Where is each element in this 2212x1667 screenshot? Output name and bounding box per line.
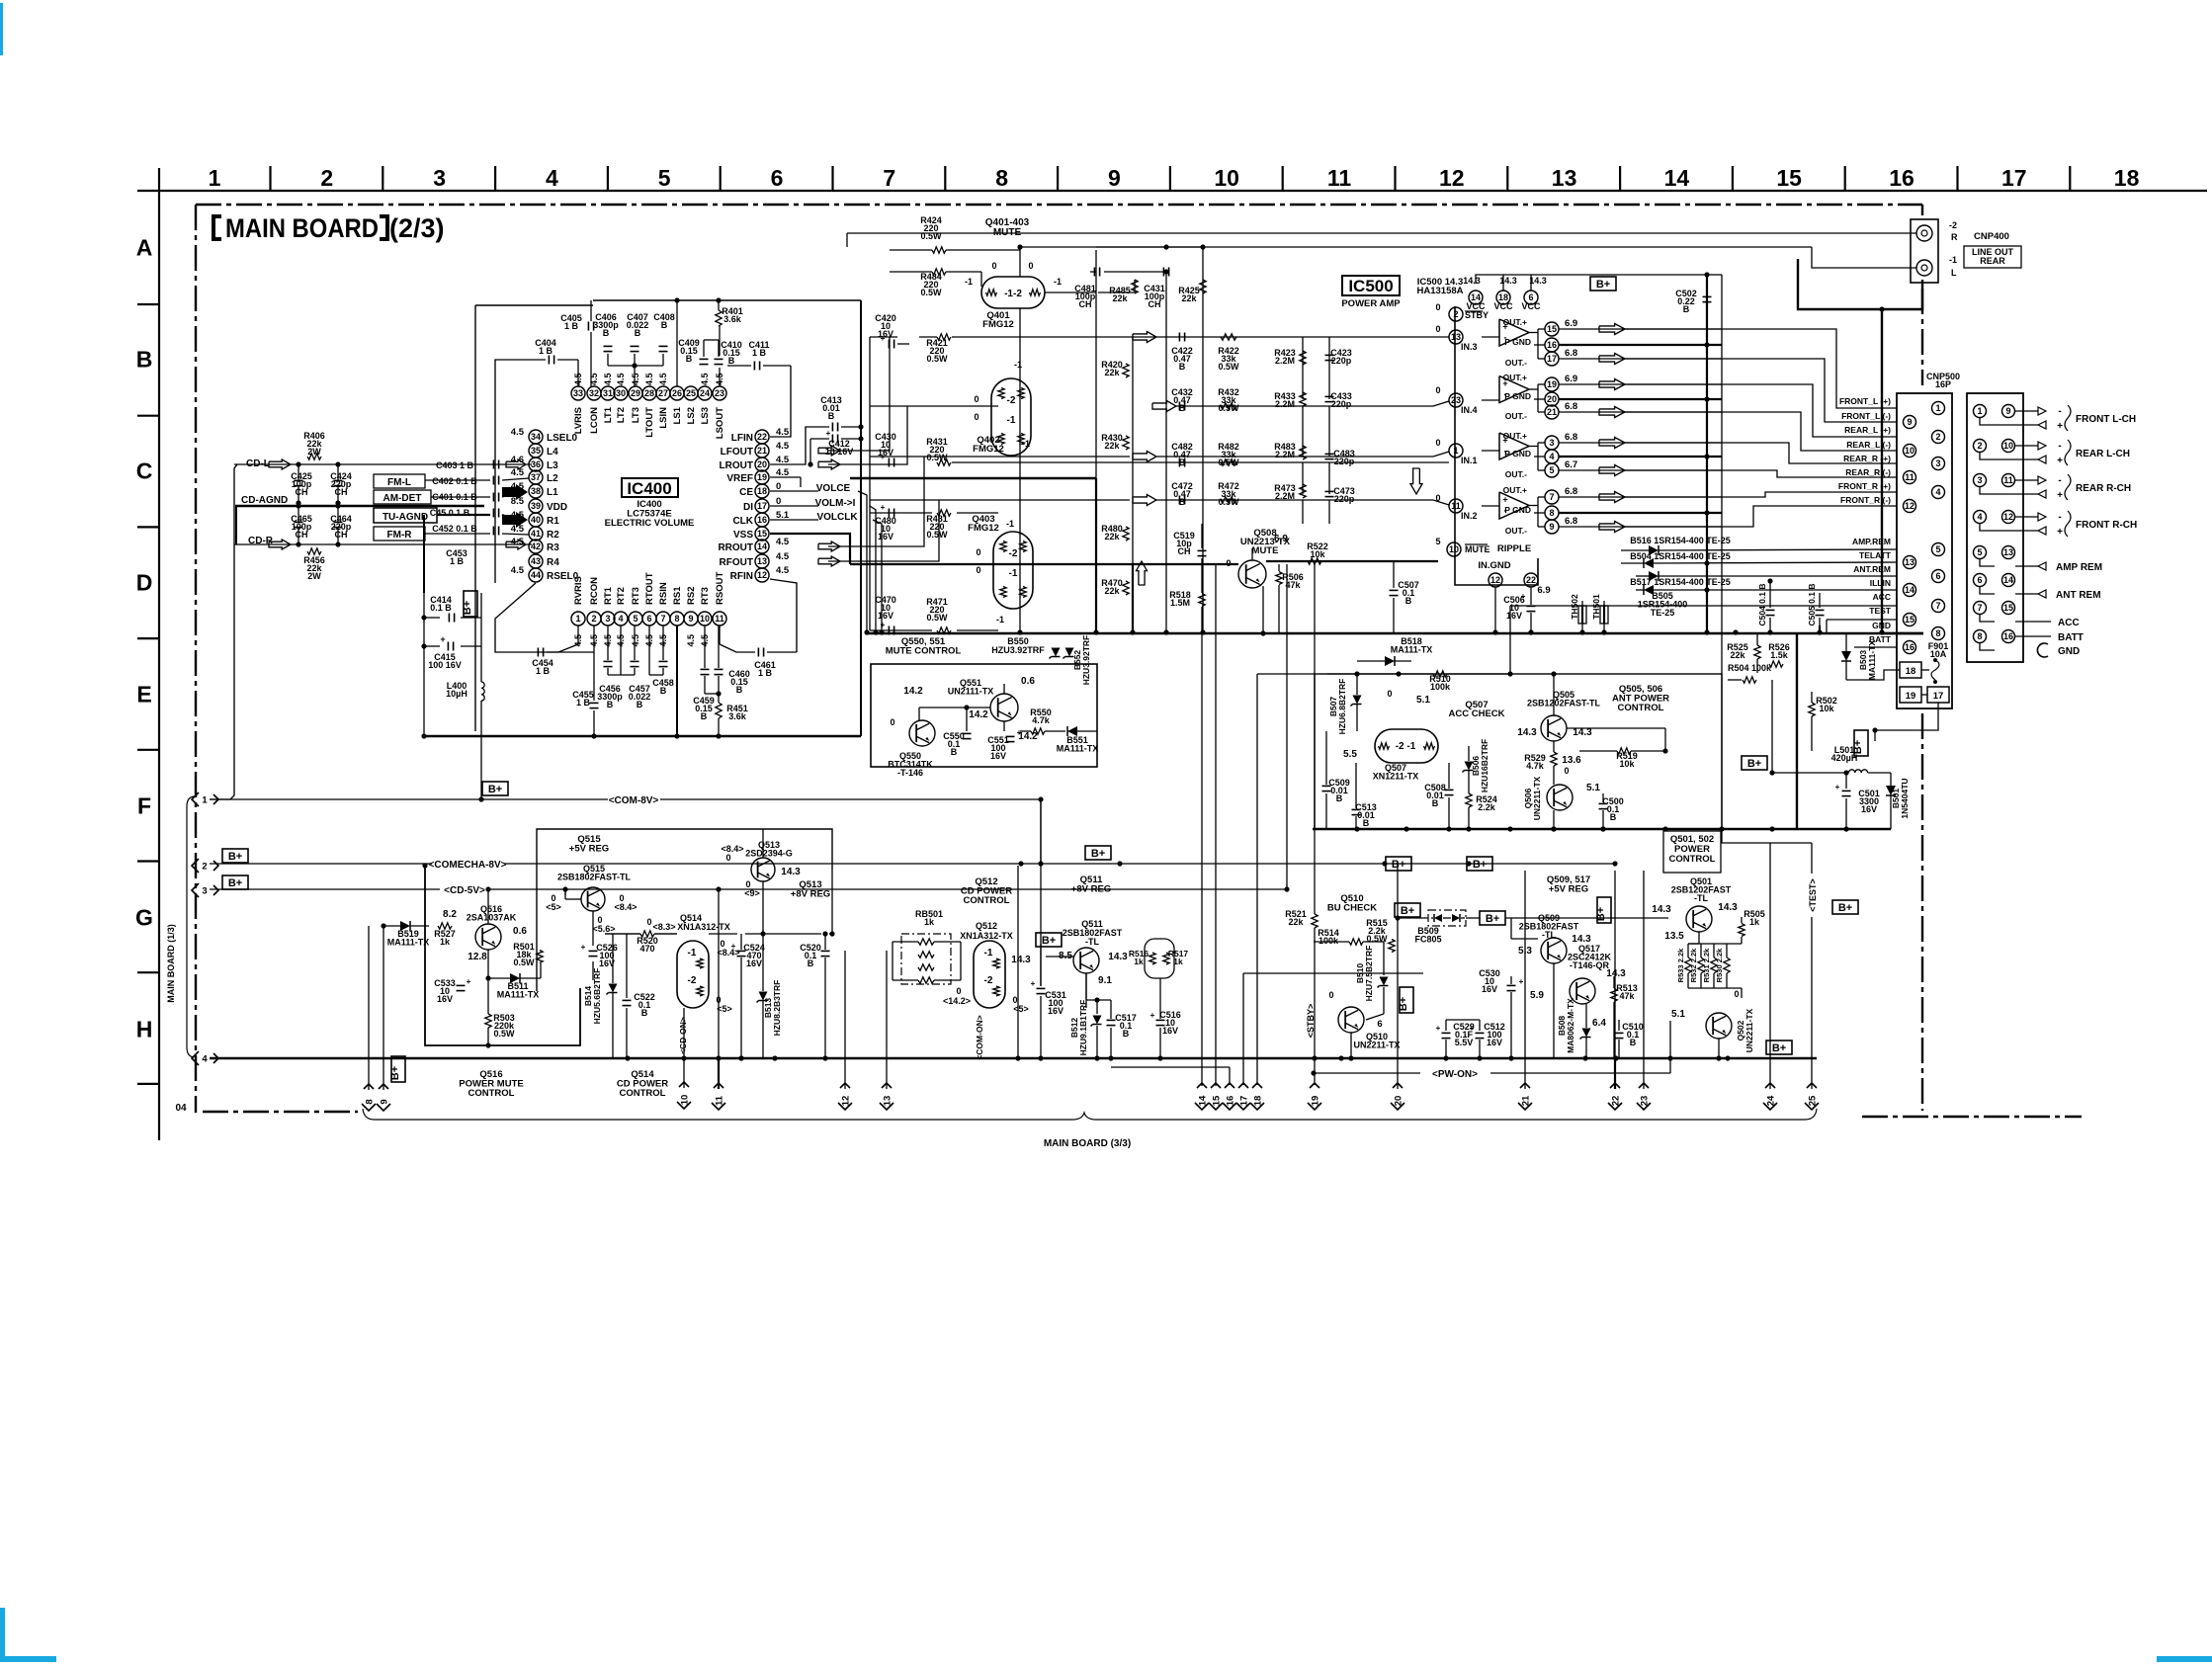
- wire FM-L to L2: [425, 479, 490, 481]
- svg-text:IN.GND: IN.GND: [1478, 560, 1510, 571]
- svg-text:B+: B+: [1091, 848, 1105, 860]
- svg-text:13: 13: [1451, 332, 1461, 342]
- svg-text:23: 23: [1451, 395, 1461, 405]
- svg-text:4: 4: [202, 1053, 208, 1064]
- svg-text:15: 15: [757, 529, 767, 539]
- svg-text:TU-AGND: TU-AGND: [383, 512, 428, 523]
- IC500 pin 10 MUTE: [1447, 542, 1461, 556]
- svg-text:AM-DET: AM-DET: [383, 493, 422, 504]
- wire Q514 row: [605, 933, 640, 935]
- speaker channel FRONT R-CH: [2015, 516, 2038, 518]
- svg-text:B: B: [808, 959, 814, 968]
- svg-text:+: +: [1017, 728, 1022, 737]
- board frame bottom border: [203, 1112, 2082, 1117]
- svg-text:100 16V: 100 16V: [428, 660, 462, 670]
- svg-text:CH: CH: [1149, 299, 1161, 309]
- svg-text:3.6k: 3.6k: [728, 711, 747, 721]
- svg-text:+5V REG: +5V REG: [569, 844, 609, 855]
- svg-text:25: 25: [1807, 1095, 1818, 1106]
- svg-text:REAR: REAR: [1980, 256, 2005, 266]
- svg-text:REAR R-CH: REAR R-CH: [2076, 483, 2131, 494]
- svg-text:22: 22: [1526, 575, 1536, 585]
- page connector 20: [1391, 1083, 1404, 1110]
- svg-text:MA111-TX: MA111-TX: [1867, 640, 1877, 680]
- svg-text:B+: B+: [1595, 907, 1607, 921]
- svg-text:12: 12: [1905, 501, 1914, 511]
- wire column x1302: [1286, 564, 1288, 889]
- sub-circuit box ACC CHECK: [1315, 674, 1722, 829]
- svg-text:B+: B+: [228, 877, 242, 889]
- svg-text:B: B: [728, 356, 735, 366]
- svg-text:14.3: 14.3: [1108, 952, 1128, 962]
- svg-text:B: B: [736, 685, 743, 695]
- svg-text:LT3: LT3: [631, 407, 641, 423]
- speaker connector pins: [1974, 405, 1987, 418]
- B+ box IC500: [1590, 277, 1616, 291]
- svg-text:+5V REG: +5V REG: [1549, 884, 1588, 895]
- svg-text:+: +: [440, 634, 445, 644]
- wire Q511 nets: [1085, 973, 1087, 1008]
- wire column 15: [1215, 564, 1217, 1086]
- page connector 12: [838, 1083, 852, 1110]
- wire C413 C412 loop: [770, 427, 829, 464]
- svg-text:VCC: VCC: [1493, 301, 1513, 311]
- svg-text:0: 0: [1328, 990, 1333, 1000]
- svg-text:0: 0: [1028, 261, 1033, 271]
- svg-text:B+: B+: [1747, 758, 1761, 770]
- svg-text:L: L: [1951, 268, 1957, 278]
- svg-text:ACC: ACC: [2058, 618, 2080, 628]
- svg-text:-1: -1: [1006, 519, 1014, 529]
- svg-text:10: 10: [1905, 446, 1914, 456]
- wire column 14: [1201, 607, 1203, 1086]
- svg-text:B: B: [828, 411, 835, 421]
- svg-text:CLK: CLK: [732, 516, 753, 527]
- svg-text:L2: L2: [547, 473, 558, 484]
- open arrow in2: [1133, 495, 1156, 506]
- svg-text:+: +: [2057, 456, 2063, 466]
- svg-text:8: 8: [995, 165, 1008, 191]
- svg-text:+: +: [1150, 1011, 1155, 1020]
- wire GND trunk vertical: [1881, 309, 1883, 632]
- node FM-R: [374, 527, 425, 541]
- svg-text:0: 0: [1564, 766, 1569, 776]
- svg-text:22k: 22k: [1104, 586, 1120, 596]
- svg-text:1 B: 1 B: [450, 556, 465, 566]
- svg-text:1 B: 1 B: [564, 321, 579, 331]
- svg-text:<CD-5V>: <CD-5V>: [444, 885, 485, 896]
- svg-text:DI: DI: [743, 502, 753, 513]
- wire B+ top bus: [1706, 275, 1708, 632]
- svg-text:LS1: LS1: [672, 406, 683, 424]
- IC500 pin 14 VCC: [1469, 291, 1483, 304]
- svg-text:16V: 16V: [1506, 611, 1522, 621]
- resistor R456: [307, 548, 321, 554]
- svg-text:VSS: VSS: [733, 530, 753, 541]
- svg-text:XN1A312-TX: XN1A312-TX: [677, 922, 730, 932]
- svg-text:22k: 22k: [1181, 293, 1197, 303]
- board frame top border: [196, 204, 1922, 206]
- svg-text:<8.4>: <8.4>: [614, 902, 637, 912]
- svg-text:5.1: 5.1: [1416, 695, 1430, 706]
- svg-text:16V: 16V: [1861, 804, 1877, 814]
- svg-text:2: 2: [1453, 309, 1458, 319]
- svg-text:8.5: 8.5: [511, 496, 525, 507]
- open arrow in4: [1152, 401, 1176, 412]
- svg-text:4.5: 4.5: [511, 427, 525, 438]
- svg-text:B+: B+: [1838, 902, 1852, 914]
- wire mute thick row: [850, 563, 1238, 565]
- svg-text:UN2111-TX: UN2111-TX: [948, 687, 994, 697]
- svg-text:-: -: [2058, 475, 2061, 486]
- svg-text:10µH: 10µH: [446, 689, 468, 699]
- svg-text:AMP.REM: AMP.REM: [1852, 537, 1891, 546]
- svg-text:6.8: 6.8: [1565, 348, 1577, 359]
- wire x1740 line: [1721, 275, 1723, 539]
- svg-text:4.7k: 4.7k: [1526, 761, 1545, 771]
- svg-text:+: +: [581, 943, 586, 952]
- brace MAIN BOARD 1/3: [187, 796, 194, 1057]
- svg-text:9: 9: [1549, 522, 1554, 532]
- svg-text:21: 21: [757, 446, 767, 456]
- wire in2 row: [870, 499, 1130, 501]
- svg-text:-: -: [2058, 512, 2061, 523]
- svg-text:P GND: P GND: [1504, 449, 1531, 458]
- wire CD-AGND drop: [235, 506, 237, 544]
- svg-text:16P: 16P: [1935, 379, 1951, 389]
- svg-text:FRONT_L (-): FRONT_L (-): [1841, 411, 1891, 421]
- svg-text:REAR L-CH: REAR L-CH: [2076, 449, 2130, 459]
- svg-text:MUTE: MUTE: [1252, 545, 1279, 556]
- svg-text:14.2: 14.2: [969, 709, 988, 720]
- fuse box 19: [1900, 687, 1921, 703]
- op-amp IC500 channel 2: [1499, 376, 1529, 403]
- svg-text:10k: 10k: [1619, 759, 1635, 769]
- wire VREF stub: [770, 476, 801, 478]
- svg-text:0: 0: [976, 565, 980, 575]
- svg-text:6: 6: [771, 165, 784, 191]
- svg-text:G: G: [135, 905, 153, 931]
- svg-text:17: 17: [1547, 354, 1557, 364]
- svg-text:16V: 16V: [1487, 1038, 1502, 1047]
- wire CD-5V line: [210, 888, 440, 890]
- wire vertical node 1 riser: [210, 464, 237, 799]
- svg-text:470: 470: [639, 944, 654, 954]
- svg-text:C45 0.1 B: C45 0.1 B: [430, 508, 470, 518]
- wire in4 row: [870, 405, 998, 407]
- transistor Q513: [751, 858, 775, 881]
- svg-text:8: 8: [364, 1099, 375, 1104]
- wire CD-L: [259, 463, 532, 465]
- svg-text:6.9: 6.9: [1565, 374, 1577, 384]
- svg-text:4: 4: [618, 614, 623, 624]
- svg-text:11: 11: [2003, 475, 2013, 485]
- svg-text:HZU9.1B1TRF: HZU9.1B1TRF: [1078, 1000, 1088, 1056]
- svg-text:9: 9: [2005, 406, 2010, 416]
- svg-text:FRONT_R (+): FRONT_R (+): [1838, 481, 1891, 491]
- svg-text:1: 1: [1935, 403, 1940, 413]
- svg-text:IC400: IC400: [627, 479, 671, 498]
- svg-text:FC805: FC805: [1414, 935, 1441, 945]
- svg-text:-2: -2: [1007, 395, 1016, 406]
- svg-text:12: 12: [1490, 575, 1500, 585]
- svg-text:REAR_R (+): REAR_R (+): [1843, 454, 1891, 463]
- registration mark bottom-right: [2157, 1656, 2212, 1662]
- svg-text:17: 17: [757, 501, 767, 511]
- svg-text:14.3: 14.3: [1606, 968, 1626, 979]
- wire Q515 base stub: [564, 889, 566, 899]
- svg-text:R4: R4: [547, 557, 559, 568]
- svg-text:H: H: [136, 1017, 153, 1042]
- svg-text:6.9: 6.9: [1565, 318, 1577, 329]
- IC500 pin 11 IN.2: [1449, 499, 1463, 513]
- svg-text:VDD: VDD: [547, 502, 567, 513]
- svg-text:FM-R: FM-R: [387, 530, 413, 541]
- svg-text:F: F: [137, 793, 151, 819]
- open arrow row C inputs: [506, 459, 526, 469]
- svg-text:<CD-ON>: <CD-ON>: [678, 1017, 688, 1054]
- svg-text:1: 1: [202, 794, 208, 805]
- svg-text:B: B: [660, 686, 667, 696]
- svg-text:0: 0: [1435, 324, 1440, 334]
- svg-text:MA111-TX: MA111-TX: [387, 938, 430, 948]
- svg-text:<PW-ON>: <PW-ON>: [1432, 1069, 1478, 1080]
- svg-text:0: 0: [974, 412, 978, 422]
- svg-text:14.3: 14.3: [1529, 276, 1547, 286]
- wire jack R feed: [847, 232, 1916, 234]
- svg-text:OUT.-: OUT.-: [1505, 358, 1527, 368]
- svg-text:0: 0: [646, 917, 651, 927]
- svg-text:OUT.+: OUT.+: [1503, 373, 1527, 382]
- svg-text:+: +: [1835, 783, 1840, 792]
- wire VCC tops: [1476, 275, 1707, 284]
- wire RFOUT arrow: [818, 556, 840, 566]
- page connector 16: [1223, 1083, 1236, 1110]
- svg-text:<8.4>: <8.4>: [717, 948, 739, 958]
- wire column 17: [1242, 973, 1244, 1085]
- hatched arrow CD-L: [269, 459, 291, 469]
- svg-text:3: 3: [202, 885, 207, 896]
- board frame right border: [1921, 205, 1923, 1111]
- svg-text:RSEL0: RSEL0: [547, 571, 579, 582]
- svg-text:20: 20: [1393, 1096, 1404, 1107]
- wire audio feedback verticals: [828, 337, 890, 451]
- svg-text:R: R: [1951, 232, 1958, 242]
- fuse element: [1931, 660, 1939, 680]
- svg-text:14: 14: [757, 542, 767, 551]
- svg-text:2: 2: [202, 861, 207, 872]
- IC400 top bus: [593, 299, 861, 301]
- svg-text:POWER AMP: POWER AMP: [1341, 298, 1401, 309]
- svg-text:32: 32: [589, 388, 599, 398]
- page connector 3: [192, 883, 218, 897]
- svg-text:ANT REM: ANT REM: [2056, 590, 2101, 601]
- svg-text:B+: B+: [1398, 997, 1409, 1011]
- resistor bank R533 R532 R531 R530: [1685, 958, 1691, 973]
- up arrow near C519: [1137, 561, 1148, 585]
- wire main mid GND bus: [867, 632, 1923, 635]
- svg-text:CH: CH: [335, 530, 348, 540]
- transistor pair Q403: [993, 532, 1033, 609]
- svg-text:RT3: RT3: [631, 587, 641, 605]
- svg-text:R531 2.2k: R531 2.2k: [1702, 948, 1711, 982]
- svg-text:B: B: [136, 347, 153, 373]
- svg-text:-1: -1: [1007, 415, 1016, 426]
- svg-text:MA111-TX: MA111-TX: [1057, 744, 1099, 754]
- svg-text:4.5: 4.5: [511, 565, 525, 576]
- svg-text:4.6: 4.6: [511, 455, 524, 465]
- svg-text:16: 16: [1547, 340, 1557, 350]
- wire C507 column: [1393, 561, 1395, 588]
- wire jack thick return: [1798, 259, 1922, 309]
- svg-text:IN.3: IN.3: [1461, 342, 1478, 352]
- wire column 19 with R521: [1314, 561, 1316, 914]
- svg-text:RSOUT: RSOUT: [715, 572, 725, 605]
- wire C519 column: [1201, 524, 1203, 548]
- wire Q501 area nets: [1698, 932, 1700, 944]
- svg-text:14.3: 14.3: [1499, 276, 1517, 286]
- svg-text:B: B: [1405, 596, 1412, 606]
- svg-text:7: 7: [1935, 601, 1940, 611]
- svg-text:1 B: 1 B: [536, 666, 551, 676]
- svg-text:21: 21: [1520, 1095, 1531, 1106]
- IC500 outline: [1455, 306, 1538, 585]
- svg-text:-1: -1: [965, 277, 973, 287]
- svg-text:42: 42: [531, 542, 541, 551]
- svg-text:<COM-ON>: <COM-ON>: [975, 1015, 984, 1059]
- wire vertical trunk x1109: [1095, 250, 1097, 478]
- svg-text:(2/3): (2/3): [389, 213, 445, 243]
- speaker channel REAR L-CH: [2015, 445, 2038, 447]
- svg-text:CH: CH: [296, 530, 308, 540]
- svg-text:3: 3: [1935, 458, 1940, 468]
- wire C480 row: [870, 512, 932, 514]
- svg-text:9: 9: [1108, 165, 1121, 191]
- wire vertical trunk x1032: [1019, 326, 1021, 632]
- wire bottom main bus: [210, 1057, 1817, 1060]
- svg-text:B+: B+: [228, 851, 242, 863]
- svg-text:5: 5: [1435, 537, 1440, 546]
- B+ box left of L501: [1742, 756, 1767, 770]
- svg-text:+: +: [1470, 1024, 1475, 1033]
- svg-text:4.5: 4.5: [776, 441, 790, 452]
- svg-text:4.5: 4.5: [511, 537, 525, 547]
- svg-text:B: B: [1363, 818, 1370, 828]
- svg-text:0: 0: [991, 261, 996, 271]
- svg-text:10: 10: [679, 1095, 690, 1106]
- svg-text:0.5W: 0.5W: [493, 1029, 515, 1039]
- svg-text:B+: B+: [1042, 935, 1056, 947]
- svg-text:+: +: [881, 503, 886, 512]
- svg-text:TE-25: TE-25: [1651, 608, 1675, 618]
- board frame left border: [195, 205, 197, 1113]
- svg-text:LFOUT: LFOUT: [721, 447, 753, 458]
- svg-text:LCON: LCON: [589, 407, 600, 434]
- wire Q508 collector: [1262, 586, 1264, 633]
- svg-text:1: 1: [209, 165, 221, 191]
- svg-text:6.8: 6.8: [1565, 486, 1577, 497]
- svg-text:B+: B+: [1401, 905, 1414, 917]
- svg-text:FMG12: FMG12: [973, 444, 1004, 455]
- svg-text:B+: B+: [462, 601, 473, 615]
- wire vertical trunk x1146: [1132, 337, 1134, 564]
- signal BATT: [2015, 635, 2051, 637]
- svg-text:R1: R1: [547, 516, 559, 527]
- svg-text:CONTROL: CONTROL: [620, 1088, 666, 1099]
- svg-text:0: 0: [1435, 493, 1440, 503]
- svg-text:16: 16: [1225, 1096, 1235, 1107]
- svg-text:2W: 2W: [307, 447, 321, 457]
- svg-text:<TEST>: <TEST>: [1808, 878, 1818, 912]
- wire pin1 drop: [577, 625, 579, 644]
- svg-text:7: 7: [1977, 603, 1982, 613]
- IC500 pin 23 IN.4: [1449, 393, 1463, 407]
- svg-text:5.5V: 5.5V: [1455, 1038, 1474, 1047]
- svg-text:14.3: 14.3: [781, 867, 801, 877]
- svg-text:0: 0: [1435, 438, 1440, 448]
- label Q501 502 POWER CONTROL box: [1663, 831, 1721, 873]
- svg-text:+: +: [1436, 1024, 1441, 1033]
- svg-text:1k: 1k: [924, 917, 935, 927]
- svg-text:4.5: 4.5: [631, 373, 640, 385]
- open arrow in3: [1133, 332, 1156, 343]
- wire C425 C424 columns: [298, 464, 299, 480]
- svg-text:4.5: 4.5: [776, 565, 790, 576]
- IC400 right pins 22-12: [755, 430, 769, 444]
- svg-text:0: 0: [725, 853, 730, 863]
- label LINE OUT REAR box: [1964, 246, 2021, 268]
- wire Q510 emitter: [1350, 1033, 1352, 1058]
- svg-text:10: 10: [1449, 544, 1459, 554]
- svg-text:13.5: 13.5: [1664, 931, 1684, 942]
- fuse box 18: [1900, 662, 1921, 678]
- wire pin44 loop: [495, 583, 536, 652]
- op-amp IC500 channel 1: [1499, 319, 1529, 346]
- svg-text:-2: -2: [1009, 548, 1018, 559]
- IC400 right edge bus: [860, 300, 862, 736]
- svg-text:RCON: RCON: [589, 577, 600, 605]
- svg-text:12: 12: [757, 570, 767, 580]
- svg-text:-TL: -TL: [1085, 937, 1099, 947]
- svg-text:L3: L3: [547, 460, 558, 471]
- svg-text:6: 6: [1935, 571, 1940, 581]
- capacitor C461: [757, 648, 759, 657]
- svg-text:40: 40: [531, 515, 541, 525]
- svg-text:3.6k: 3.6k: [723, 314, 742, 324]
- svg-text:XN1211-TX: XN1211-TX: [1373, 772, 1419, 782]
- svg-text:B517 1SR154-400 TE-25: B517 1SR154-400 TE-25: [1630, 577, 1731, 587]
- svg-text:A: A: [136, 235, 153, 261]
- wire control row feeds: [1510, 605, 1897, 607]
- svg-text:5.9: 5.9: [1530, 990, 1544, 1001]
- svg-text:ILLIN: ILLIN: [1870, 578, 1891, 588]
- page connector 23: [1637, 1083, 1651, 1110]
- svg-text:24: 24: [1765, 1095, 1776, 1106]
- svg-text:OUT.+: OUT.+: [1503, 485, 1527, 495]
- svg-text:B: B: [1630, 1038, 1637, 1047]
- svg-text:-1: -1: [688, 948, 697, 959]
- wire in4 continue: [1176, 405, 1433, 407]
- svg-text:-1: -1: [1022, 439, 1030, 449]
- svg-text:3: 3: [1549, 438, 1554, 448]
- node AM-DET: [374, 490, 431, 504]
- svg-text:+: +: [881, 334, 886, 343]
- page connector 8: [362, 1084, 376, 1111]
- svg-text:P GND: P GND: [1504, 391, 1531, 401]
- svg-text:30: 30: [616, 388, 626, 398]
- svg-text:14.3: 14.3: [1517, 727, 1537, 738]
- B+ vertical near Q510: [1400, 987, 1413, 1013]
